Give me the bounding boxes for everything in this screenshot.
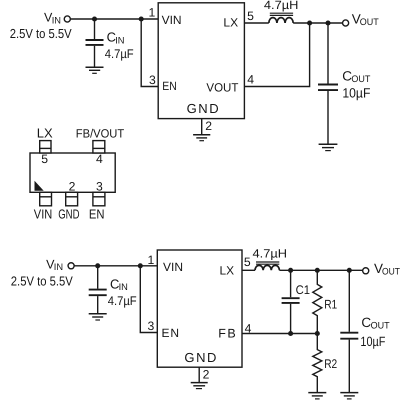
svg-text:5: 5: [41, 152, 48, 166]
wire U1 LX pin 5 to inductor (top): [244, 22, 268, 24]
svg-text:2.5V to 5.5V: 2.5V to 5.5V: [10, 26, 72, 41]
IC U2 (bottom application circuit, adjustable version): [157, 250, 242, 367]
junction C1 bottom / FB: [288, 331, 293, 336]
node VOUT output terminal (top): [343, 20, 349, 26]
wire U1 VOUT pin 4 up to output node (top): [244, 23, 309, 87]
svg-text:2: 2: [203, 368, 210, 382]
junction R1/R2 / FB: [315, 331, 320, 336]
inductor L 4.7uH (top): [269, 13, 293, 23]
svg-text:3: 3: [96, 180, 103, 194]
wire EN tied to VIN (top): [141, 19, 158, 87]
wire VIN terminal to U2 pin 1 (bottom): [74, 265, 157, 267]
label VOUT (top): [352, 11, 379, 27]
svg-text:1: 1: [149, 5, 156, 19]
junction COUT tap (top): [325, 20, 330, 25]
svg-text:GND: GND: [58, 206, 79, 221]
package body SOT-23-5 (pinout diagram): [30, 153, 115, 192]
ground below R2: [308, 393, 326, 399]
svg-text:3: 3: [149, 73, 156, 87]
ground below COUT (bottom): [340, 393, 358, 399]
svg-text:EN: EN: [162, 79, 177, 93]
svg-text:FB: FB: [218, 326, 236, 340]
svg-text:LX: LX: [37, 125, 53, 140]
resistor R1 (upper feedback): [313, 270, 322, 333]
svg-text:4.7µF: 4.7µF: [108, 294, 137, 308]
wire U1 GND pin 2 stub (top): [201, 119, 203, 135]
junction R1 tap (bottom): [315, 268, 320, 273]
inductor L 4.7uH (bottom): [255, 262, 279, 270]
wire U2 LX pin 5 to inductor (bottom): [242, 269, 255, 271]
label CIN (top): [107, 30, 125, 47]
wire inductor to VOUT terminal (bottom): [279, 269, 362, 271]
wire U2 GND pin 2 stub: [198, 367, 200, 382]
wire VIN terminal to U1 pin 1: [71, 18, 159, 20]
junction LX output / pin4 riser (top): [307, 20, 312, 25]
label COUT (bottom): [361, 315, 389, 332]
junction EN tie tap (bottom): [138, 263, 143, 268]
svg-text:10µF: 10µF: [360, 334, 385, 349]
svg-text:3: 3: [148, 319, 155, 333]
pin 1 marker triangle: [35, 181, 44, 191]
junction VIN / CIN tap (top): [92, 16, 97, 21]
ground at U1 pin 2 (top): [193, 135, 210, 141]
package pin 1 lead (bottom left): [40, 192, 52, 206]
package pin 3 lead (bottom right): [93, 192, 105, 206]
ground below CIN (top): [86, 67, 104, 73]
junction EN tie tap (top): [139, 16, 144, 21]
svg-text:LX: LX: [220, 264, 235, 278]
svg-text:4.7µH: 4.7µH: [253, 247, 288, 261]
label VIN (top): [44, 11, 61, 27]
svg-text:VIN: VIN: [162, 13, 182, 27]
svg-text:GND: GND: [184, 350, 216, 365]
svg-text:R1: R1: [324, 298, 337, 312]
junction CIN tap (bottom): [95, 263, 100, 268]
svg-text:FB/VOUT: FB/VOUT: [76, 126, 125, 140]
svg-text:10µF: 10µF: [342, 86, 370, 101]
node VIN input terminal (bottom): [68, 263, 74, 269]
svg-text:IN: IN: [54, 262, 63, 273]
svg-text:OUT: OUT: [371, 321, 390, 332]
wire EN tied to VIN (bottom): [140, 266, 157, 333]
wire U2 FB pin 4 to feedback node (bottom): [242, 333, 317, 335]
package pin 4 lead (top right): [93, 141, 105, 153]
svg-text:LX: LX: [223, 16, 238, 30]
junction COUT tap (bottom): [347, 268, 352, 273]
svg-text:C1: C1: [296, 283, 310, 297]
svg-text:EN: EN: [162, 326, 180, 340]
svg-text:2.5V to 5.5V: 2.5V to 5.5V: [11, 273, 73, 288]
capacitor CIN (top): [86, 19, 104, 67]
svg-text:4.7µF: 4.7µF: [105, 47, 134, 61]
svg-text:2: 2: [69, 180, 76, 194]
IC U1 (top application circuit, SOT-23-5 regulator): [158, 3, 244, 119]
package pin 2 lead (bottom middle): [66, 192, 78, 206]
resistor R2 (lower feedback): [313, 334, 322, 393]
ground below COUT (top): [319, 144, 338, 150]
svg-text:4.7µH: 4.7µH: [264, 0, 299, 12]
svg-text:2: 2: [205, 119, 212, 133]
svg-text:GND: GND: [187, 101, 219, 116]
label COUT (top): [342, 69, 370, 86]
capacitor COUT (bottom): [340, 270, 358, 392]
svg-text:EN: EN: [89, 206, 105, 221]
svg-text:4: 4: [96, 152, 103, 166]
label VOUT (bottom): [374, 261, 400, 277]
svg-text:VOUT: VOUT: [206, 80, 239, 94]
svg-text:IN: IN: [119, 282, 128, 293]
capacitor CIN (bottom): [89, 266, 107, 314]
ground at U2 pin 2: [191, 383, 208, 389]
svg-text:5: 5: [247, 9, 254, 23]
ground below CIN (bottom): [89, 314, 107, 320]
svg-text:OUT: OUT: [351, 74, 370, 85]
capacitor COUT (top): [318, 23, 338, 144]
svg-text:5: 5: [244, 255, 251, 269]
capacitor C1 (feedforward): [282, 270, 300, 333]
junction C1 tap (bottom): [288, 268, 293, 273]
svg-text:IN: IN: [52, 15, 61, 26]
svg-text:VIN: VIN: [34, 206, 53, 221]
label VIN (bottom): [46, 257, 63, 273]
package pin 5 lead (top left): [40, 141, 51, 153]
label CIN (bottom): [110, 277, 128, 294]
svg-text:VIN: VIN: [163, 260, 183, 274]
wire inductor to VOUT terminal (top): [293, 22, 342, 24]
svg-text:OUT: OUT: [360, 17, 379, 28]
svg-text:OUT: OUT: [382, 267, 400, 278]
node VIN input terminal (top): [64, 16, 70, 22]
svg-text:4: 4: [247, 72, 254, 86]
node VOUT output terminal (bottom): [363, 268, 369, 274]
svg-text:R2: R2: [324, 357, 337, 371]
svg-text:IN: IN: [115, 35, 124, 46]
